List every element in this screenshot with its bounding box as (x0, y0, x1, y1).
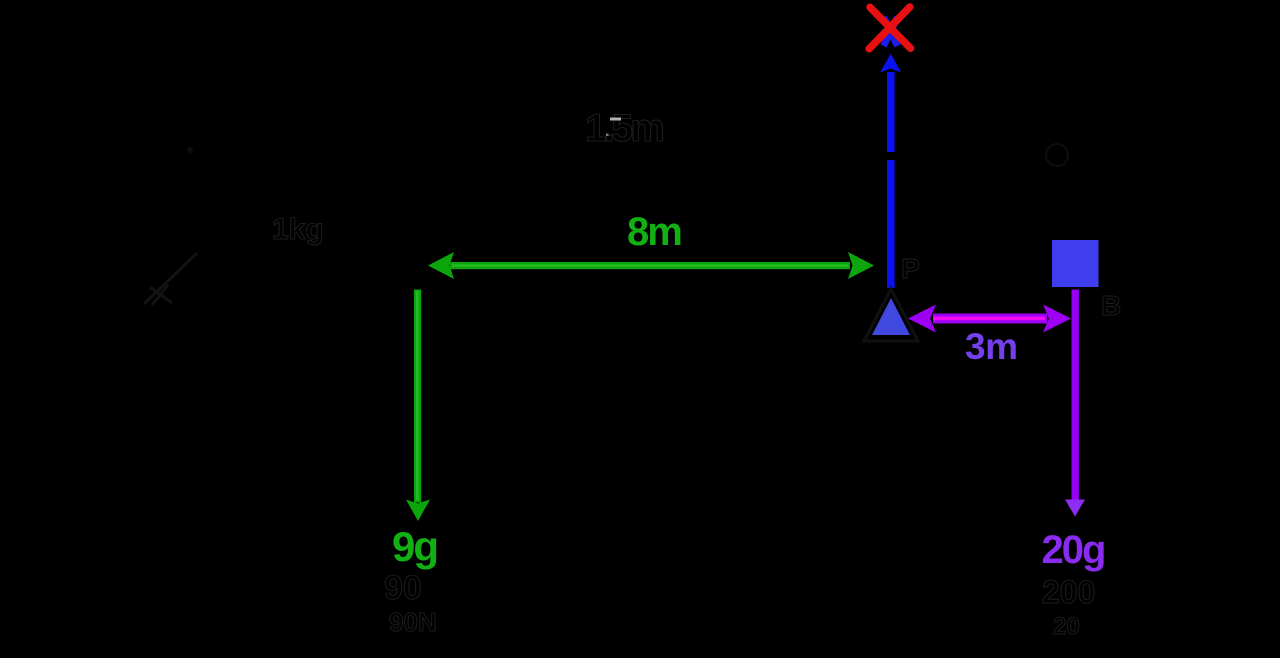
svg-text:200: 200 (1042, 574, 1095, 610)
green double arrow 8m (428, 252, 874, 279)
green down arrow (9g force) (406, 290, 430, 522)
blue crossed-out mark under red X (884, 17, 898, 46)
faint sketch left: diagonal beam line (144, 253, 197, 305)
blue up arrow (reaction) (880, 54, 901, 289)
svg-text:P: P (901, 253, 920, 284)
svg-text:8m: 8m (627, 210, 681, 254)
svg-text:9g: 9g (392, 523, 437, 570)
svg-text:90N: 90N (389, 607, 437, 637)
faint ring right-top (1046, 144, 1068, 166)
red X cross-out (869, 7, 910, 49)
purple down arrow (20g force) (1065, 290, 1085, 517)
pivot triangle (blue) (872, 298, 910, 335)
blue square mass B (1052, 240, 1099, 287)
svg-text:1.5m: 1.5m (585, 107, 663, 150)
pivot outline (dark) (864, 289, 918, 341)
svg-text:20g: 20g (1042, 528, 1105, 572)
svg-text:20: 20 (1053, 613, 1080, 640)
svg-text:B: B (1101, 290, 1121, 321)
svg-text:3m: 3m (965, 326, 1017, 367)
svg-text:1kg: 1kg (272, 213, 324, 246)
purple double arrow 3m (908, 305, 1071, 333)
svg-text:90: 90 (384, 569, 422, 607)
faint dot upper-left (187, 147, 193, 153)
